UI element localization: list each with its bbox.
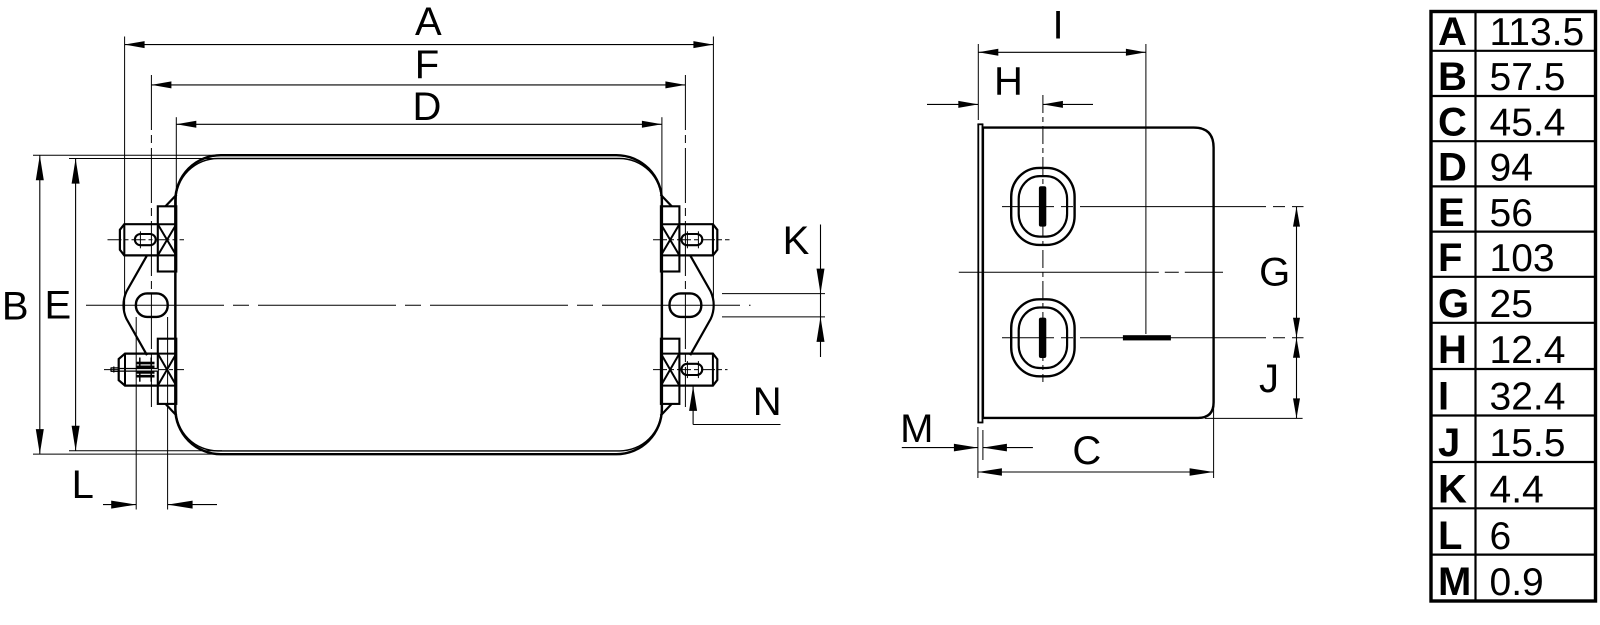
weld box top-left <box>158 224 177 255</box>
svg-text:L: L <box>1438 514 1462 558</box>
svg-text:D: D <box>413 85 442 129</box>
svg-text:J: J <box>1438 421 1460 465</box>
spade terminal top-left <box>120 224 159 255</box>
svg-text:113.5: 113.5 <box>1490 11 1585 54</box>
connector bottom slot <box>1039 318 1046 358</box>
hole centerline left (F extension) <box>150 75 152 407</box>
connector bottom centerline / G lower reference <box>1002 337 1304 339</box>
terminal centerline top-right <box>653 239 730 241</box>
terminal centerline top-left <box>108 239 185 241</box>
dimension I <box>978 51 1146 53</box>
dimension K <box>722 293 825 295</box>
weld box bottom-right <box>661 354 680 386</box>
hole centerline right (F extension) <box>684 75 686 407</box>
svg-text:6: 6 <box>1490 515 1512 558</box>
svg-text:F: F <box>1438 236 1462 280</box>
J bottom reference <box>1205 417 1303 419</box>
svg-text:45.4: 45.4 <box>1490 101 1566 144</box>
body outer outline <box>175 155 662 454</box>
svg-text:J: J <box>1259 357 1279 401</box>
dimension N <box>692 386 694 425</box>
weld box top-right <box>661 224 680 255</box>
svg-text:K: K <box>1438 468 1467 512</box>
svg-text:E: E <box>45 284 72 328</box>
dimension C <box>978 471 1214 473</box>
svg-text:B: B <box>2 284 29 328</box>
terminal block top-left <box>158 206 177 271</box>
svg-text:25: 25 <box>1490 283 1533 326</box>
svg-text:4.4: 4.4 <box>1490 469 1544 512</box>
side body outline <box>983 128 1214 418</box>
slot in spade top-left <box>135 234 156 245</box>
svg-text:H: H <box>994 59 1023 103</box>
svg-text:32.4: 32.4 <box>1490 376 1566 419</box>
connector top outer <box>1011 168 1074 245</box>
svg-text:15.5: 15.5 <box>1490 422 1566 465</box>
table text <box>1438 10 1471 604</box>
table row lines <box>1431 50 1596 52</box>
connector bottom inner <box>1019 308 1067 369</box>
terminal block bottom-right <box>661 339 680 404</box>
mounting hole left <box>136 293 168 317</box>
dimension G / J line <box>1296 207 1298 419</box>
svg-text:12.4: 12.4 <box>1490 329 1566 372</box>
dimension M <box>902 447 978 449</box>
dimension E <box>75 159 77 451</box>
dimension B <box>39 155 41 454</box>
svg-text:I: I <box>1438 375 1449 419</box>
ground tab edge-on bar <box>1123 335 1171 340</box>
side body mid centerline <box>959 271 1223 273</box>
connector top centerline / G upper reference <box>1002 206 1304 208</box>
screw head bottom-left <box>119 354 159 386</box>
connector bottom outer <box>1011 299 1074 376</box>
table column divider <box>1474 12 1476 602</box>
svg-text:57.5: 57.5 <box>1490 56 1566 99</box>
svg-text:C: C <box>1072 429 1101 473</box>
flange plate <box>977 124 979 422</box>
screw shank threads bottom-left <box>137 362 155 378</box>
body inner seam outline <box>176 159 662 451</box>
terminal centerline bottom-right <box>653 369 728 371</box>
tab wing bottom-left <box>166 404 177 416</box>
svg-text:L: L <box>72 463 94 507</box>
connector top slot <box>1039 186 1046 226</box>
front view labels <box>2 0 810 507</box>
slot in spade top-right <box>682 234 703 245</box>
dimension A <box>125 44 714 46</box>
tab wing top-right <box>661 195 672 207</box>
dimension D <box>176 123 662 125</box>
screw slot band bottom-left <box>119 369 158 372</box>
svg-text:M: M <box>1438 560 1471 604</box>
screw pin bottom-left <box>111 367 119 369</box>
terminal block top-right <box>661 206 680 271</box>
svg-text:G: G <box>1259 251 1290 295</box>
dimension F <box>151 84 685 86</box>
slot in spade bottom-right <box>682 364 703 375</box>
connector top inner <box>1019 176 1067 237</box>
tab wing top-left <box>166 195 177 207</box>
table outer border <box>1431 12 1596 602</box>
dimension H <box>927 103 978 105</box>
svg-text:I: I <box>1052 4 1063 48</box>
svg-text:B: B <box>1438 55 1467 99</box>
svg-text:E: E <box>1438 191 1465 235</box>
svg-text:0.9: 0.9 <box>1490 561 1544 604</box>
svg-text:M: M <box>900 407 933 451</box>
main horizontal centerline <box>86 304 751 306</box>
svg-text:C: C <box>1438 100 1467 144</box>
left tab plate <box>124 255 148 355</box>
tab wing bottom-right <box>661 404 672 416</box>
terminal centerline bottom-left <box>104 369 184 371</box>
svg-text:N: N <box>753 380 782 424</box>
terminal block bottom-left <box>158 339 177 404</box>
svg-text:H: H <box>1438 328 1467 372</box>
weld box bottom-left <box>158 354 177 386</box>
svg-text:103: 103 <box>1490 237 1555 280</box>
svg-text:56: 56 <box>1490 192 1533 235</box>
svg-text:94: 94 <box>1490 147 1533 190</box>
svg-text:A: A <box>415 0 442 44</box>
connector vertical centerline <box>1042 95 1044 382</box>
svg-text:K: K <box>783 219 810 263</box>
mounting hole right <box>670 293 702 317</box>
dimension L <box>135 317 137 510</box>
svg-text:A: A <box>1438 10 1467 54</box>
side view labels <box>900 4 1290 474</box>
spade terminal bottom-right <box>679 354 717 386</box>
right tab plate <box>690 255 714 355</box>
svg-text:D: D <box>1438 146 1467 190</box>
svg-text:F: F <box>415 43 439 87</box>
spade terminal top-right <box>679 224 717 255</box>
svg-text:G: G <box>1438 282 1469 326</box>
